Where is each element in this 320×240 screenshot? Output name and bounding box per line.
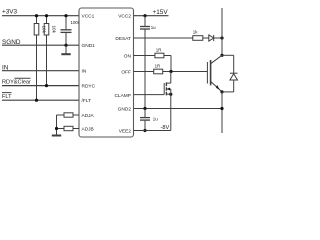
transistor Q2 clamp MOSFET xyxy=(164,72,171,96)
junction ADJ bus at ADJB xyxy=(55,127,58,130)
resistor R6 1R ON xyxy=(155,48,171,58)
svg-text:1u: 1u xyxy=(151,25,156,30)
ground ADJ symbol xyxy=(52,135,61,137)
junction R1 bottom on FLT xyxy=(35,99,38,102)
net label RDY&Clear xyxy=(2,78,31,85)
wire CLAMP line xyxy=(134,94,165,96)
junction C2 bottom / C3 top on GND2 xyxy=(143,107,146,110)
svg-text:RDY&Clear: RDY&Clear xyxy=(2,79,31,85)
resistor R5 1k DESAT xyxy=(193,29,209,40)
wire +3V3 rail xyxy=(2,15,79,17)
junction gate node xyxy=(169,70,172,73)
junction R2 top on +3V3 xyxy=(45,14,48,17)
svg-text:ADJB: ADJB xyxy=(82,127,94,133)
svg-text:+3V3: +3V3 xyxy=(2,9,18,16)
wire GND2 line xyxy=(134,108,223,110)
wire R1 bottom lead to FLT xyxy=(36,35,38,100)
capacitor C3 1u GND2-VEE2 xyxy=(140,109,158,131)
transistor Q1 IGBT xyxy=(207,55,222,92)
wire ON to gate node xyxy=(170,56,172,72)
svg-text:RDYC: RDYC xyxy=(82,84,96,90)
svg-text:OFF: OFF xyxy=(121,70,131,76)
ground GND1 symbol xyxy=(61,45,70,54)
capacitor C1 100u VCC1-GND1 xyxy=(61,16,81,46)
junction GND2 on emitter rail xyxy=(220,107,223,110)
svg-text:VEE2: VEE2 xyxy=(119,129,132,135)
svg-text:1k: 1k xyxy=(193,29,198,34)
junction C1 top on VCC1 xyxy=(64,14,67,17)
wire Q2 source to VEE2 xyxy=(170,89,172,131)
svg-text:1u: 1u xyxy=(153,116,158,121)
svg-text:CLAMP: CLAMP xyxy=(114,93,131,99)
svg-text:IN: IN xyxy=(82,69,87,75)
wire ON line xyxy=(134,55,155,57)
junction R2 bottom on RDY&Clear xyxy=(45,84,48,87)
svg-text:+15V: +15V xyxy=(153,9,169,16)
resistor R2 10k pull-up on RDY&Clear xyxy=(44,16,56,35)
wire collector rail top xyxy=(221,8,223,55)
resistor R1 10k pull-up on FLT xyxy=(34,16,46,35)
svg-text:/FLT: /FLT xyxy=(82,98,92,104)
op-amp U1 gate-driver IC box xyxy=(79,8,134,137)
wire SGND rail xyxy=(2,44,79,46)
svg-text:DESAT: DESAT xyxy=(115,36,131,42)
svg-text:1R: 1R xyxy=(155,64,161,69)
junction C3 bottom on VEE2 xyxy=(143,129,146,132)
wire emitter rail xyxy=(221,92,223,133)
wire VCC2 to +15V rail xyxy=(134,15,169,17)
resistor R3 ADJA xyxy=(57,113,80,117)
svg-text:-8V: -8V xyxy=(161,125,170,131)
svg-text:GND2: GND2 xyxy=(118,107,132,113)
svg-text:1R: 1R xyxy=(156,48,162,53)
wire FLT xyxy=(2,99,79,101)
svg-text:FLT: FLT xyxy=(2,94,12,100)
junction Q2 source node xyxy=(169,93,172,96)
resistor R7 1R OFF xyxy=(154,64,208,74)
svg-text:VCC1: VCC1 xyxy=(82,14,95,20)
wire RDY&Clear xyxy=(2,85,79,87)
wire OFF line xyxy=(134,71,154,73)
svg-text:10k: 10k xyxy=(52,26,57,34)
wire R2 bottom lead to RDY&Clear xyxy=(46,35,48,86)
net label FLT (overline) xyxy=(2,93,12,100)
capacitor C2 1u VCC2-GND2 xyxy=(140,16,156,109)
svg-text:ADJA: ADJA xyxy=(82,113,95,119)
wire DESAT line xyxy=(134,37,193,39)
diode D1 DESAT blocking xyxy=(209,35,222,41)
wire IN xyxy=(2,70,79,72)
diode D2 freewheel xyxy=(222,55,238,92)
junction emitter/diode/rail xyxy=(220,90,223,93)
svg-text:GND1: GND1 xyxy=(82,43,96,49)
wire VEE2 line xyxy=(134,130,171,132)
junction DESAT on collector rail xyxy=(220,36,223,39)
wire ADJ bus xyxy=(56,115,58,135)
svg-text:ON: ON xyxy=(124,54,132,60)
junction C1 bottom on GND1 xyxy=(64,44,67,47)
resistor R4 ADJB xyxy=(57,126,80,130)
junction R1 top on +3V3 xyxy=(35,14,38,17)
svg-text:VCC2: VCC2 xyxy=(118,14,131,20)
junction collector/diode/rail xyxy=(220,54,223,57)
junction C2 top on +15V xyxy=(143,14,146,17)
